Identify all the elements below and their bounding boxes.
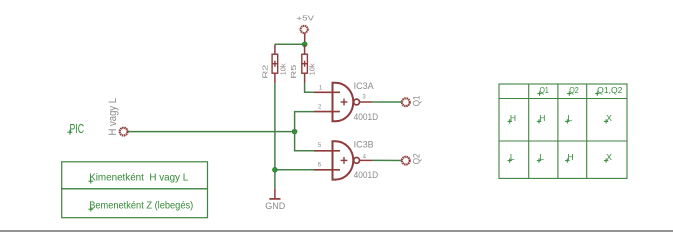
table r2c2 H (565, 152, 574, 163)
svg-text:4: 4 (363, 154, 367, 160)
svg-text:R5: R5 (289, 65, 298, 79)
svg-text:IC3B: IC3B (354, 139, 374, 149)
svg-text:Q1: Q1 (411, 95, 421, 106)
pad Q1 (402, 95, 421, 106)
pad PIC (120, 128, 128, 136)
svg-text:+5V: +5V (296, 14, 314, 23)
svg-text:Bemenetként Z (lebegés): Bemenetként Z (lebegés) (89, 201, 193, 212)
wire (305, 83, 314, 93)
wire (372, 101, 402, 103)
resistor R2 (260, 44, 287, 83)
svg-text:R2: R2 (260, 65, 269, 79)
svg-text:3: 3 (362, 95, 366, 101)
wire (295, 112, 314, 151)
svg-text:1: 1 (319, 85, 323, 91)
table header Q1,Q2 (595, 85, 623, 96)
NOR gate IC3A (314, 81, 379, 122)
bottom frame line (0, 230, 673, 232)
svg-text:Q2: Q2 (411, 153, 421, 164)
svg-text:4001D: 4001D (354, 170, 379, 180)
table r1c2 L (565, 113, 572, 124)
note box 2: Bemenetkent Z (lebeges) (62, 189, 208, 218)
svg-text:10k: 10k (310, 63, 317, 76)
truth table grid (499, 84, 627, 178)
wire (275, 169, 314, 171)
wire (274, 83, 276, 188)
svg-text:IC3A: IC3A (354, 81, 374, 91)
svg-text:2: 2 (318, 105, 322, 111)
table r2c0 L (508, 152, 515, 163)
svg-text:GND: GND (265, 201, 286, 211)
svg-text:PIC: PIC (70, 122, 85, 136)
table r1c3 X (604, 113, 612, 124)
table r1c1 H (537, 113, 546, 124)
svg-text:4001D: 4001D (354, 112, 379, 122)
junction C (292, 129, 297, 134)
node +5V (296, 14, 314, 45)
wire (372, 159, 402, 161)
wire (128, 131, 295, 133)
svg-text:Q1,Q2: Q1,Q2 (597, 85, 622, 95)
resistor R5 (289, 44, 316, 82)
ground (265, 188, 286, 211)
table header Q1 (537, 85, 549, 96)
NOR gate IC3B (314, 139, 379, 180)
wire (275, 43, 305, 45)
note box 1: Kimenetkent H vagy L (62, 162, 208, 189)
table r2c1 L (537, 152, 544, 163)
junction A (302, 42, 307, 47)
node PIC (67, 98, 119, 136)
table r2c3 X (604, 152, 612, 163)
svg-text:10k: 10k (281, 63, 288, 76)
pad Q2 (402, 153, 421, 164)
table r1c0 H (508, 113, 517, 124)
junction B (273, 168, 278, 173)
svg-text:5: 5 (318, 143, 322, 149)
svg-text:6: 6 (318, 163, 322, 169)
svg-text:Kimenetként H vagy L: Kimenetként H vagy L (89, 173, 188, 184)
table header Q2 (567, 85, 579, 96)
svg-text:H vagy L: H vagy L (107, 98, 119, 136)
